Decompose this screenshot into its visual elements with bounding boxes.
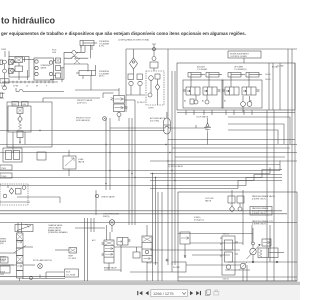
- svg-text:CYLINDER: CYLINDER: [197, 69, 208, 71]
- label relief: [78, 158, 85, 163]
- lift spool 2: [242, 87, 260, 95]
- svg-text:G1/4: G1/4: [22, 104, 26, 106]
- export icon: [206, 290, 211, 296]
- left port boxed label: [0, 257, 8, 263]
- demand valve inner box: [8, 106, 31, 132]
- stack port labels: [223, 233, 230, 281]
- svg-text:CYL.HOSE: CYL.HOSE: [66, 274, 76, 276]
- demand valve chain: [17, 108, 23, 144]
- svg-text:G-PPC: G-PPC: [148, 108, 155, 110]
- svg-text:G1/4 T.B: G1/4 T.B: [223, 279, 229, 281]
- svg-text:(2) PILOT: (2) PILOT: [137, 102, 146, 104]
- svg-text:ACC: ACC: [92, 239, 96, 242]
- page number box: [151, 290, 188, 297]
- svg-text:CYLINDER(2): CYLINDER(2): [234, 69, 247, 71]
- label brake valve: [48, 224, 68, 234]
- lower divider verticals: [85, 218, 88, 281]
- svg-text:G3/8: G3/8: [52, 52, 56, 54]
- load relief valve: [63, 150, 76, 176]
- svg-text:(R.H.): (R.H.): [99, 76, 105, 78]
- boxed label left: [0, 79, 9, 83]
- svg-text:(OIL PSS): (OIL PSS): [150, 120, 159, 122]
- top-left label P.PAS: [1, 48, 7, 51]
- solenoid cluster top-left: [0, 184, 60, 205]
- stop lamp switch: [33, 259, 52, 268]
- svg-text:(2-SPOOL): (2-SPOOL): [77, 102, 87, 104]
- svg-text:ger equipamentos de trabalho e: ger equipamentos de trabalho e dispositi…: [1, 31, 246, 36]
- svg-text:T.LOAD: T.LOAD: [277, 65, 284, 68]
- bucket cylinder group: [188, 67, 222, 78]
- svg-text:VALVE: VALVE: [78, 160, 85, 163]
- left edge port stubs: [0, 60, 3, 98]
- kick down valve box: [133, 247, 140, 258]
- label 2-spool: [77, 99, 93, 104]
- svg-text:(2) SPOOL VALVE: (2) SPOOL VALVE: [168, 165, 184, 168]
- port tick ladder under steering valve: [2, 81, 58, 84]
- svg-text:T.MIS: T.MIS: [1, 168, 7, 170]
- bottom-left wires: [0, 265, 65, 279]
- svg-text:KICK DOWN: KICK DOWN: [147, 263, 158, 265]
- accumulator: [164, 112, 171, 134]
- pilot reducing valve cluster: [146, 71, 164, 105]
- svg-text:(LEVER ONLY): (LEVER ONLY): [252, 223, 266, 225]
- verticals lower right: [158, 192, 270, 281]
- small port box left: [15, 57, 34, 80]
- right column wires: [267, 49, 295, 281]
- steering demand outer box: [7, 102, 52, 147]
- horizontal wires lower right: [150, 243, 243, 250]
- priority valve relief pair: [126, 74, 145, 95]
- work box double bottom: [177, 112, 295, 114]
- svg-text:G1/4 T.A: G1/4 T.A: [223, 233, 230, 236]
- filter block: [172, 262, 240, 272]
- svg-text:STOP LAMP SWITCH: STOP LAMP SWITCH: [33, 259, 52, 262]
- port ticks under work box: [186, 110, 252, 115]
- charge cut valve: [104, 238, 131, 273]
- wheel brake labels left: [0, 239, 7, 261]
- wires inside work box: [191, 77, 249, 87]
- svg-text:P.PAS: P.PAS: [1, 48, 7, 51]
- svg-text:(L.H.): (L.H.): [99, 46, 104, 48]
- transmission box top edge: [192, 254, 230, 256]
- svg-text:VALVE: VALVE: [205, 199, 212, 202]
- toolbar divider band: [0, 282, 300, 285]
- last page button: [196, 291, 201, 295]
- svg-text:to hidráulico: to hidráulico: [1, 16, 56, 26]
- steering demand valve chain: [0, 223, 35, 282]
- parking brake cylinder: [258, 248, 284, 258]
- work equipment control lever label box: [228, 51, 261, 63]
- accumulator charge stack: [114, 225, 152, 281]
- lock valve: [204, 118, 211, 145]
- pilot valve small: [180, 232, 190, 258]
- lift arm cylinder group: [228, 66, 262, 78]
- steering cylinder LH: [80, 41, 97, 53]
- indicator switch box: [250, 207, 272, 216]
- svg-text:(LEVER ONLY): (LEVER ONLY): [252, 198, 266, 200]
- 2-spool control valve block: [75, 88, 135, 121]
- svg-text:LOCK VALVE: LOCK VALVE: [196, 116, 209, 119]
- svg-text:{9.2kgf/cm²}: {9.2kgf/cm²}: [194, 218, 204, 221]
- svg-text:KICK: KICK: [66, 272, 71, 274]
- left port label T.SUS: [0, 272, 6, 277]
- temp cylinder valve: [55, 248, 77, 260]
- lower-left rail verticals: [153, 174, 156, 282]
- svg-text:A2: A2: [202, 100, 204, 103]
- label cut-off valve: [205, 198, 214, 202]
- lower right wires: [178, 234, 297, 278]
- work equipment outer box: [177, 63, 295, 110]
- upper box bottom edge 2: [0, 213, 287, 215]
- relief pair bucket: [190, 95, 209, 104]
- boxed label G3/8 b: [22, 102, 29, 107]
- tiny labels under ladder: [1, 85, 47, 88]
- port labels CH-10: [265, 74, 270, 81]
- bucket spool 1: [183, 87, 200, 95]
- svg-text:CH-10: CH-10: [265, 74, 270, 76]
- svg-text:(FR): (FR): [0, 243, 4, 245]
- svg-text:BRAKE VALVE: BRAKE VALVE: [104, 267, 117, 270]
- svg-text:(STEERING DEMAND): (STEERING DEMAND): [48, 231, 68, 234]
- long horizontal rails: [0, 125, 297, 189]
- boxed label G3/8 a: [12, 102, 19, 107]
- inner box lift group: [222, 80, 262, 108]
- svg-text:LS: LS: [26, 86, 28, 88]
- junction circle mid-bottom: [166, 259, 168, 261]
- svg-text:B1: B1: [224, 101, 226, 103]
- solenoid squares right of steering valve: [54, 58, 65, 82]
- svg-text:CHECK VALVE: CHECK VALVE: [101, 196, 115, 199]
- low pressure switch: [103, 214, 120, 233]
- prev page button: [145, 291, 148, 295]
- air breather box: [0, 266, 65, 279]
- pressure label: [194, 217, 204, 221]
- label steering valve: [41, 65, 51, 69]
- svg-text:SW.(S): SW.(S): [103, 216, 110, 218]
- solenoid circle top mesh: [103, 117, 107, 121]
- float compartment divider: [279, 63, 281, 110]
- svg-text:CH-10: CH-10: [265, 79, 270, 81]
- svg-text:P: P: [46, 86, 47, 88]
- transmission valve stack: [220, 236, 238, 275]
- label 2-spool bottom: [76, 118, 91, 122]
- lift spool 1: [222, 87, 239, 95]
- svg-text:(LEVER ONLY): (LEVER ONLY): [252, 213, 266, 215]
- svg-text:G-PAS: G-PAS: [1, 85, 6, 88]
- bucket spool 2: [203, 87, 221, 95]
- top rail: [126, 48, 297, 50]
- svg-text:B2: B2: [184, 101, 186, 103]
- junction circles: [252, 261, 278, 263]
- charge pump: [247, 228, 261, 262]
- svg-text:G3/8: G3/8: [13, 104, 17, 106]
- wire left cut labels: [0, 92, 5, 100]
- small box under demand: [37, 152, 46, 160]
- label steering cylinder RH: [99, 71, 110, 78]
- top-left stub wires: [5, 51, 9, 57]
- svg-text:(1:1MPa){TANK=P} DIRECTIONAL: (1:1MPa){TANK=P} DIRECTIONAL: [118, 38, 150, 41]
- svg-text:CONTROL LEVER: CONTROL LEVER: [230, 56, 247, 58]
- svg-text:NOID VALVE(S): NOID VALVE(S): [76, 119, 90, 122]
- demand box verticals: [13, 132, 25, 153]
- small port labels left edge: [0, 165, 12, 178]
- label PBS: [52, 50, 57, 54]
- kick hose boxed label: [65, 269, 79, 277]
- svg-text:EF: EF: [36, 86, 38, 88]
- upper box bottom edge: [0, 210, 282, 212]
- labels parking brake right: [252, 195, 276, 225]
- svg-text:1266 / 1275: 1266 / 1275: [153, 291, 174, 296]
- ppc gauge circles: [241, 96, 252, 112]
- inner box bucket group: [183, 80, 223, 108]
- svg-text:G3/4: G3/4: [0, 274, 4, 276]
- pump right: [239, 262, 247, 281]
- lower right box: [178, 192, 297, 281]
- label steering cylinder LH: [99, 41, 110, 48]
- svg-text:G-PBS: G-PBS: [13, 86, 18, 88]
- port tick labels: [184, 100, 252, 103]
- nested corner steps right: [228, 117, 290, 189]
- junction dots: [39, 130, 170, 184]
- accumulator block left: [3, 148, 22, 162]
- svg-text:VALVE: VALVE: [41, 66, 48, 69]
- svg-text:CYL.MOD: CYL.MOD: [68, 258, 77, 260]
- toolbar background: [0, 285, 300, 300]
- hop wire y91.5: [16, 88, 64, 92]
- charge solenoid cluster right: [228, 190, 244, 245]
- crossing wires with hops: [50, 45, 91, 90]
- svg-text:G1/4: G1/4: [0, 98, 4, 100]
- rail junction dots: [152, 160, 176, 186]
- check valve diamond: [126, 49, 138, 112]
- svg-text:FILTER: FILTER: [173, 267, 180, 269]
- steering pilot relief pair: [3, 57, 29, 90]
- label accumulator: [150, 117, 166, 122]
- steering valve block: [34, 58, 54, 80]
- steering cylinder RH: [76, 65, 96, 79]
- first page button: [137, 291, 142, 295]
- bottom long wires: [0, 272, 297, 281]
- solenoid stack top: [150, 57, 158, 72]
- tick mark x24: [25, 57, 28, 80]
- svg-text:T.PAS: T.PAS: [0, 92, 5, 95]
- check valve label: [75, 190, 115, 232]
- vertical rails center: [106, 49, 175, 265]
- brake valve stack: [102, 225, 115, 270]
- parking release valve: [262, 239, 271, 246]
- svg-text:B.MIX: B.MIX: [1, 260, 7, 262]
- lower box top edge: [0, 222, 297, 224]
- next page button: [190, 291, 193, 295]
- wire y98 to right: [43, 98, 100, 102]
- print icon: [214, 290, 219, 295]
- brake pedal symbol: [15, 224, 33, 231]
- vent riser: [152, 44, 156, 56]
